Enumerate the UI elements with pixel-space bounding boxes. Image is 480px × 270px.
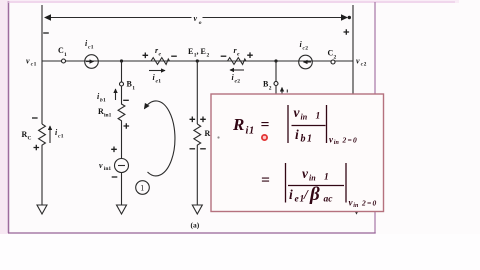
svg-text:ac: ac	[324, 195, 334, 205]
svg-text:v: v	[99, 161, 103, 170]
label plus (R_in1 bottom)	[124, 123, 130, 129]
label v_c2	[356, 57, 367, 68]
current source i_c2	[299, 40, 313, 69]
caption (a)	[191, 221, 200, 230]
label plus (v_in1 top)	[111, 147, 117, 153]
loop arrow (mesh 1)	[145, 101, 175, 176]
svg-text:v: v	[294, 105, 301, 120]
red laser dot	[262, 135, 267, 140]
current source i_c1	[85, 39, 99, 68]
node E1,E2	[188, 47, 210, 63]
svg-text:2: 2	[342, 136, 347, 145]
node junction at B1 branch	[120, 59, 123, 62]
svg-text:1: 1	[249, 126, 254, 137]
svg-text:1: 1	[132, 86, 135, 92]
node junction at B2 branch	[274, 59, 277, 62]
slide border right	[374, 2, 376, 233]
loop label 1	[136, 181, 150, 195]
label v_c1	[26, 57, 37, 68]
wire: R_C branch vertical top	[41, 61, 43, 124]
slide border bottom	[8, 232, 376, 234]
svg-text:in1: in1	[104, 166, 112, 172]
svg-text:=: =	[261, 172, 270, 189]
svg-text:1: 1	[91, 45, 94, 51]
ground (E branch)	[192, 205, 202, 214]
svg-text:2: 2	[237, 79, 240, 85]
svg-text:0: 0	[373, 199, 377, 208]
wire: v_o measurement arrow (double headed)	[44, 14, 351, 21]
condition v_in2=0 (line 2)	[349, 198, 377, 210]
numerator v_in 1 (line 1)	[294, 105, 321, 122]
node C2	[328, 49, 337, 65]
node B1	[120, 80, 136, 92]
formula R_i1	[232, 115, 254, 137]
absolute value bars line 2	[286, 163, 347, 203]
wire: B2 stub into box	[275, 86, 277, 95]
resistor R_C	[22, 124, 46, 146]
svg-text:2: 2	[334, 55, 337, 61]
svg-text:v: v	[356, 57, 360, 66]
svg-text:1: 1	[158, 79, 161, 85]
label minus minus (R_L bottom)	[190, 148, 206, 150]
fraction bar line 2	[288, 185, 344, 187]
svg-text:, E: , E	[197, 47, 206, 56]
label plus (R_C bottom)	[34, 145, 40, 151]
svg-text:1: 1	[140, 184, 144, 193]
resistor r_e (first, horizontal)	[142, 46, 177, 64]
ground (B1 branch)	[117, 205, 127, 214]
wire: right collector vertical (v_c2 rail, runs behind formula box)	[352, 5, 354, 205]
ground (v_c2 branch, mostly hidden behind formula box)	[352, 204, 362, 214]
label minus (v_in1 bottom)	[112, 176, 118, 178]
label minus (v_o left polarity)	[43, 32, 49, 34]
arrow i_c1 (through R_C)	[50, 126, 64, 143]
svg-text:v: v	[194, 14, 198, 23]
source v_in1	[99, 159, 129, 173]
wire: B2 branch vertical	[275, 61, 277, 82]
svg-text:2: 2	[269, 86, 272, 92]
svg-text:in: in	[309, 174, 316, 183]
ground (R_C branch)	[37, 205, 47, 214]
svg-text:1: 1	[324, 173, 329, 183]
svg-text:R: R	[232, 115, 244, 134]
svg-text:C: C	[28, 136, 32, 142]
numerator v_in 1 (line 2)	[302, 166, 329, 183]
svg-text:i: i	[289, 187, 293, 202]
node B2	[263, 80, 278, 92]
svg-text:=: =	[261, 117, 270, 134]
resistor R_L	[194, 124, 213, 146]
arrow i_e2 (current direction)	[230, 70, 244, 85]
svg-text:in: in	[353, 203, 359, 209]
equals sign line 2	[261, 172, 270, 189]
stray speck inside box	[217, 136, 219, 138]
svg-text:E: E	[188, 47, 193, 56]
svg-text:=: =	[367, 199, 371, 208]
wire: left collector vertical (v_c1 rail top)	[41, 5, 43, 61]
resistor R_in1	[98, 86, 125, 122]
denominator i_e1/beta_ac (line 2)	[289, 184, 333, 205]
arrow i_b2 (up, next to B2)	[282, 88, 287, 96]
label v_o	[192, 14, 203, 27]
svg-text:b: b	[301, 134, 306, 145]
formula box	[211, 94, 384, 212]
svg-text:in: in	[334, 140, 340, 146]
svg-text:v: v	[26, 57, 30, 66]
svg-text:1: 1	[64, 52, 67, 58]
arrow i_b1	[97, 89, 116, 104]
wire: B1 branch to source	[121, 122, 123, 159]
denominator i_b1 (line 1)	[295, 127, 312, 145]
label plus plus (R_L top)	[190, 117, 206, 123]
wire: E branch vertical	[196, 61, 198, 124]
svg-text:2: 2	[364, 62, 367, 68]
svg-text:1: 1	[316, 112, 321, 122]
svg-text:i: i	[295, 127, 299, 142]
label minus (R_in1 top)	[123, 99, 129, 101]
svg-text:2: 2	[207, 53, 210, 59]
svg-text:in1: in1	[104, 113, 112, 119]
svg-text:1: 1	[307, 134, 312, 145]
node C1	[58, 46, 67, 63]
svg-text:=: =	[348, 136, 352, 145]
svg-text:1: 1	[103, 98, 106, 104]
condition v_in2=0 (line 1)	[329, 135, 357, 147]
fraction bar line 1	[292, 125, 326, 127]
wire: R_C to ground	[41, 146, 43, 205]
resistor r_e (second, horizontal)	[219, 46, 253, 64]
slide border top	[8, 1, 455, 3]
svg-text:β: β	[309, 184, 320, 205]
wire: R_L to ground	[196, 146, 198, 205]
wire: source to ground	[121, 173, 123, 206]
svg-text:in: in	[301, 113, 308, 122]
svg-text:1: 1	[34, 62, 37, 68]
absolute value bars line 1	[288, 105, 327, 143]
svg-text:2: 2	[305, 46, 308, 52]
label minus (R_C top)	[32, 117, 38, 119]
wire: B1 branch vertical	[121, 61, 123, 82]
svg-text:0: 0	[353, 136, 357, 145]
slide border left	[8, 1, 10, 233]
svg-text:2: 2	[361, 199, 366, 208]
wire: main horizontal rail	[42, 60, 353, 62]
arrow i_e1 (current direction)	[149, 71, 165, 85]
svg-text:1: 1	[61, 134, 64, 140]
svg-text:(a): (a)	[191, 221, 200, 230]
label plus (v_o right polarity)	[344, 29, 350, 35]
equals sign line 1	[261, 117, 270, 134]
svg-text:o: o	[199, 20, 202, 26]
svg-text:v: v	[302, 166, 309, 181]
